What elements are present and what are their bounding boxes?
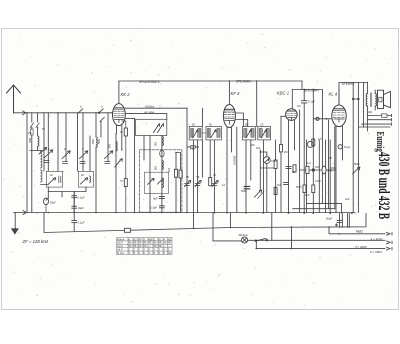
mains switch (19): [229, 80, 230, 81]
mid verticals (6): [213, 140, 215, 213]
waveband switch contacts (2): [79, 109, 83, 113]
vertical wires left section (17): [115, 134, 117, 213]
title vertical: [375, 132, 394, 220]
mid components (3): [195, 184, 200, 186]
KL4 top bus: [339, 83, 367, 105]
right verticals (1): [357, 83, 359, 213]
svg-text:0,1: 0,1: [213, 174, 217, 177]
KF3 tube (3): [224, 114, 234, 116]
svg-text:ZF = 128 kHz: ZF = 128 kHz: [22, 239, 50, 244]
svg-text:SKALA: SKALA: [239, 233, 248, 237]
svg-text:b = 150V: b = 150V: [370, 250, 382, 254]
voltage table: [117, 238, 173, 255]
cap below bus: [72, 213, 77, 232]
svg-text:85: 85: [133, 241, 136, 245]
mains lines (4): [194, 213, 231, 241]
components right-mid (14): [312, 168, 315, 171]
components right-mid (10): [312, 185, 315, 193]
vertical wires left section (4): [37, 128, 39, 136]
KF3 tube (9): [227, 127, 232, 212]
verticals center-right (6): [274, 160, 277, 169]
trimmer box left A: [47, 171, 63, 187]
svg-text:90: 90: [163, 241, 166, 245]
waveband switch contacts: [30, 123, 33, 128]
power box: [340, 214, 350, 228]
resistor on 31.8: [31, 129, 34, 135]
oscillator dashed box: [139, 150, 182, 212]
KF3 tube (7): [225, 118, 234, 120]
svg-text:a = 110V: a = 110V: [371, 237, 383, 241]
speaker connections: [374, 90, 376, 110]
mid components: [185, 181, 191, 187]
IF can 1b (1): [207, 129, 210, 138]
verticals center-right (1): [250, 140, 252, 180]
svg-text:Ua V: Ua V: [117, 241, 123, 245]
vertical wires left section (9): [65, 113, 67, 162]
svg-text:65: 65: [133, 244, 136, 248]
right-mid verticals (9): [334, 127, 336, 209]
IF link: [202, 132, 206, 134]
ground: [14, 213, 16, 229]
IF can 2a: [242, 127, 255, 140]
second bus plug: [125, 228, 131, 232]
KL4 grid connector (1): [313, 118, 331, 120]
svg-text:500: 500: [97, 139, 101, 144]
resistor under KK2 (1): [122, 121, 126, 213]
cap 0.1: [72, 192, 77, 203]
mains switch (18): [186, 108, 187, 109]
svg-text:100: 100: [168, 167, 171, 172]
tuning cap C2: [62, 151, 70, 159]
svg-text:KK 2: KK 2: [121, 92, 131, 97]
osc resistor (2): [176, 153, 181, 213]
svg-text:600: 600: [109, 143, 112, 148]
mains switch (4): [95, 212, 97, 214]
trimmer box left A (1): [49, 178, 56, 184]
components right-mid (1): [286, 167, 291, 169]
KK2 tube (3): [114, 113, 124, 115]
components right-mid (11): [307, 141, 313, 147]
vertical wires left section (15): [100, 122, 102, 138]
KF3 tube (8): [228, 81, 230, 105]
svg-text:50μF: 50μF: [326, 217, 333, 221]
trimmer box left B (2): [90, 176, 91, 183]
tuning cap C2 (1): [63, 162, 68, 164]
vertical wires left section (6): [43, 113, 45, 171]
coil L1: [41, 151, 43, 169]
resistor under KK2: [124, 128, 127, 136]
KF3 tube: [223, 105, 235, 128]
svg-text:88: 88: [158, 241, 161, 245]
KK2 tube (9): [111, 112, 112, 114]
mains switch (6): [161, 212, 163, 214]
svg-text:50μF: 50μF: [50, 202, 56, 205]
svg-text:0,5: 0,5: [318, 138, 322, 141]
osc coil line: [161, 136, 163, 213]
KL4 tube (1): [334, 108, 345, 110]
svg-text:K: K: [128, 237, 130, 241]
mains switch (16): [260, 151, 262, 153]
svg-text:UKB50: UKB50: [233, 155, 237, 165]
trimmer pair box (1): [154, 124, 160, 133]
svg-text:5000: 5000: [327, 170, 333, 173]
top bus 1: [119, 80, 302, 82]
KF3 tube (2): [224, 111, 234, 113]
speaker connections (1): [362, 110, 392, 131]
svg-text:C: C: [153, 237, 155, 241]
KL4 tube (7): [338, 89, 340, 105]
output transformer secondary (1): [366, 106, 368, 110]
KK2 tube: [113, 104, 126, 126]
link line (1): [48, 192, 74, 213]
speaker connections (3): [358, 126, 390, 128]
svg-text:5000: 5000: [296, 186, 302, 189]
svg-text:0.1μF: 0.1μF: [150, 206, 157, 210]
mid verticals: [186, 127, 188, 213]
IF can 1b (5): [211, 130, 216, 138]
mains switch (17): [57, 112, 58, 113]
vertical wires left section: [26, 113, 28, 213]
IF can 1a: [189, 127, 202, 140]
vertical wires left section (20): [134, 118, 136, 212]
coil L2: [41, 170, 49, 185]
mains switch (15): [255, 248, 257, 250]
osc coil windings: [162, 137, 164, 146]
mains switch (13): [291, 226, 293, 228]
tuning cap C4: [105, 151, 113, 159]
svg-text:T40: T40: [190, 148, 195, 151]
svg-text:600: 600: [91, 139, 95, 144]
vertical wires left section (5): [37, 147, 39, 151]
vertical wires left section (13): [95, 113, 97, 137]
components right-mid (5): [258, 192, 265, 199]
vertical wires left section (2): [31, 128, 33, 213]
svg-text:2M: 2M: [28, 132, 31, 135]
svg-text:10μF: 10μF: [78, 206, 85, 210]
right-mid verticals (6): [325, 140, 327, 213]
components right-mid (2): [293, 165, 296, 172]
KBC1 tube (3): [287, 114, 296, 116]
padder trimmer arrow: [115, 159, 123, 168]
mains lines (3): [255, 241, 257, 249]
field coil: [382, 114, 388, 117]
KF3 tube (1): [225, 108, 235, 110]
speaker: [378, 90, 384, 108]
right-mid verticals (4): [318, 140, 320, 213]
KK2 tube (7): [114, 117, 123, 119]
right verticals (4): [353, 98, 358, 100]
wire KK2 aux: [125, 117, 134, 119]
wire KK2 screen: [125, 114, 167, 120]
mains switch (9): [263, 212, 265, 214]
svg-text:Uk V: Uk V: [117, 248, 123, 252]
svg-text:0,5M: 0,5M: [315, 180, 321, 183]
svg-text:K2: K2: [133, 237, 137, 241]
svg-text:KL4g: KL4g: [344, 146, 350, 149]
svg-text:95: 95: [168, 241, 171, 245]
KL4 tube (6): [334, 110, 345, 112]
right verticals (2): [363, 83, 365, 128]
waveband switch contacts (3): [100, 118, 104, 122]
electrolytic small: [44, 198, 49, 205]
IF can 2b (5): [261, 130, 266, 138]
KK2 tube (2): [114, 110, 124, 112]
mid components (6): [212, 184, 217, 186]
KBC1 tube (1): [288, 110, 296, 112]
mid verticals (5): [209, 140, 211, 177]
IF can 2a (2): [245, 129, 247, 138]
KBC1 top wire: [291, 90, 293, 109]
KF3 screen wire (1): [236, 127, 238, 212]
KL4 tube (5): [334, 119, 344, 122]
IF can 1a (1): [191, 129, 194, 138]
svg-text:Eumig: Eumig: [375, 132, 386, 153]
grid wire to KBC1: [281, 115, 286, 117]
svg-text:KL: KL: [158, 237, 162, 241]
mains switch (5): [134, 212, 136, 214]
volume pot (1): [265, 158, 269, 162]
right verticals (5): [352, 98, 354, 100]
mid components (5): [212, 181, 218, 187]
speaker (1): [384, 91, 391, 107]
mains switch (10): [303, 212, 305, 214]
IF can 2b (3): [266, 129, 269, 138]
right-mid verticals (1): [299, 110, 301, 213]
dial lamp: [241, 237, 247, 243]
svg-text:0,5M: 0,5M: [271, 160, 277, 163]
KF3 tube (5): [225, 121, 234, 125]
svg-text:4μF: 4μF: [345, 198, 350, 201]
tuning cap C4 (1): [105, 162, 110, 164]
components right-mid (12): [300, 169, 331, 171]
KBC1 coupling cap: [302, 90, 307, 213]
bus plug connector: [23, 211, 26, 215]
junction dot: [326, 118, 328, 120]
KL4 tube (3): [333, 114, 344, 116]
output transformer primary: [366, 94, 367, 107]
KBC1 tube (2): [287, 112, 296, 114]
svg-text:Netz: Netz: [356, 230, 363, 234]
osc coil windings (1): [160, 150, 164, 157]
resistor under KK2 (2): [124, 179, 127, 187]
vertical wires left section (11): [82, 113, 84, 171]
coil 600: [96, 137, 97, 147]
trimmer box left A (2): [59, 177, 61, 183]
wire KK2 anode: [125, 108, 187, 126]
svg-text:4μF: 4μF: [153, 196, 158, 200]
osc coil windings (2): [162, 161, 164, 170]
KL4 tube (4): [333, 116, 344, 118]
components right-mid (17): [331, 168, 336, 170]
svg-text:90: 90: [138, 241, 141, 245]
IF can 2a (1): [244, 129, 247, 138]
osc coil windings (3): [162, 178, 164, 188]
IF can 2b (4): [267, 129, 269, 138]
anode jack circle: [338, 145, 342, 149]
mid verticals (4): [201, 140, 203, 177]
transformer core: [371, 93, 372, 107]
IF can 1a (4): [199, 129, 201, 138]
osc caps bottom: [159, 196, 164, 198]
vertical wires left section (1): [31, 113, 33, 122]
antenna wire: [14, 112, 113, 114]
IF can 2a (5): [246, 130, 251, 138]
osc inner box: [145, 172, 169, 193]
vertical wires left section (19): [117, 125, 122, 150]
svg-text:KL 4: KL 4: [329, 92, 338, 97]
svg-text:60: 60: [143, 244, 146, 248]
mains switch (3): [48, 212, 50, 214]
mid verticals (1): [192, 140, 194, 213]
svg-text:85: 85: [143, 241, 146, 245]
heater lines: [307, 203, 342, 213]
svg-text:Ug V: Ug V: [117, 244, 123, 248]
mains lines (1): [213, 240, 392, 243]
svg-text:300: 300: [28, 138, 32, 143]
vertical wires left section (10): [77, 113, 79, 171]
IF can 2a (3): [251, 129, 254, 138]
mid verticals (2): [197, 140, 199, 213]
KK2 tube (6): [114, 109, 124, 111]
KK2 tube (8): [118, 81, 120, 104]
mains switch (8): [226, 212, 228, 214]
verticals center-right (4): [259, 150, 261, 191]
svg-text:c = 220V: c = 220V: [355, 245, 367, 249]
KBC1 tube (5): [289, 120, 295, 212]
svg-text:1M: 1M: [277, 184, 280, 187]
svg-text:4μF: 4μF: [305, 194, 310, 197]
waveband switch contacts (1): [36, 123, 39, 128]
verticals center-right (2): [262, 140, 264, 213]
svg-text:0.1μF: 0.1μF: [78, 221, 85, 225]
svg-text:1M: 1M: [297, 105, 300, 108]
IF can 1b (3): [217, 129, 220, 138]
dial lamp (1): [242, 238, 246, 242]
svg-text:60: 60: [128, 244, 131, 248]
svg-text:220: 220: [368, 111, 373, 114]
svg-text:0.1μF: 0.1μF: [78, 196, 85, 200]
svg-text:600: 600: [155, 165, 158, 170]
antenna: [7, 85, 21, 113]
svg-text:um gna: um gna: [144, 110, 154, 114]
svg-text:60: 60: [138, 244, 141, 248]
mid components (1): [185, 184, 190, 186]
svg-text:Röhre: Röhre: [117, 237, 125, 241]
svg-text:2M: 2M: [284, 151, 287, 154]
osc caps bottom (1): [159, 206, 164, 208]
tuning cap C3 (1): [80, 162, 85, 164]
coupling arrow: [30, 148, 47, 155]
cap 10uF: [72, 202, 77, 213]
KL4 tube (2): [333, 111, 344, 113]
IF can 1a (5): [193, 130, 198, 138]
components right-mid (13): [306, 166, 309, 173]
right verticals: [352, 83, 354, 213]
IF can 1b: [206, 127, 221, 140]
mains switch (1): [255, 240, 257, 242]
svg-text:KZ: KZ: [168, 237, 172, 241]
trimmer pair box: [136, 119, 167, 135]
mains lines (2): [256, 247, 392, 250]
svg-text:SPULENSATZ: SPULENSATZ: [139, 80, 160, 84]
right-mid verticals (5): [321, 90, 323, 204]
top bus drop at 256.7: [256, 81, 258, 127]
components right-mid (16): [353, 167, 360, 174]
mains switch (12): [193, 228, 195, 230]
right verticals (3): [366, 83, 368, 94]
IF can 1b (2): [208, 129, 210, 138]
trimmer pair box (3): [144, 136, 150, 213]
svg-text:88: 88: [158, 244, 161, 248]
KBC1 tube: [286, 109, 298, 121]
right-mid verticals (3): [312, 90, 314, 213]
components right-mid (4): [255, 190, 262, 197]
svg-text:90: 90: [128, 241, 131, 245]
vertical wires left section (14): [95, 147, 97, 213]
components right-mid: [280, 145, 283, 152]
IF can 2a (4): [252, 129, 254, 138]
components right-mid (7): [284, 183, 289, 185]
svg-text:KBC 1: KBC 1: [277, 91, 289, 96]
mains lines: [329, 227, 392, 235]
svg-text:5000: 5000: [354, 163, 360, 166]
output transformer secondary: [375, 94, 376, 107]
tuning cap C1: [45, 150, 53, 158]
KK2 tube (5): [115, 120, 124, 123]
svg-text:0,1: 0,1: [222, 184, 226, 187]
svg-text:KF: KF: [138, 237, 142, 241]
electrolytic small (1): [46, 199, 48, 213]
mid verticals (3): [201, 108, 203, 126]
verticals center-right (7): [260, 167, 274, 169]
right-mid verticals (2): [306, 140, 308, 213]
verticals center-right (3): [266, 164, 268, 213]
antenna plug connector: [23, 111, 26, 115]
KL4 tube: [332, 105, 346, 127]
mains switch (7): [186, 212, 188, 214]
second bus: [44, 213, 366, 233]
svg-text:0.1μF: 0.1μF: [308, 100, 315, 104]
IF can 2b: [258, 127, 271, 140]
svg-text:45: 45: [148, 241, 151, 245]
vertical wires left section (12): [89, 136, 91, 171]
osc pad cap: [188, 146, 199, 148]
svg-text:300: 300: [155, 141, 158, 146]
svg-text:430 B und 432 B: 430 B und 432 B: [375, 152, 393, 219]
KBC1 tube (4): [288, 117, 295, 120]
svg-text:SPEJSAH: SPEJSAH: [304, 88, 319, 92]
speaker (2): [379, 97, 382, 102]
KF3 tube (4): [224, 116, 234, 118]
electrolytic +: [335, 220, 342, 226]
svg-text:0,3: 0,3: [307, 162, 311, 165]
top bus 2: [292, 81, 322, 90]
link line: [48, 187, 86, 197]
trimmer pair box (2): [158, 124, 164, 133]
svg-text:KK2bd: KK2bd: [145, 104, 154, 108]
components right-mid (15): [322, 166, 326, 174]
tuning cap C1 (1): [44, 161, 49, 163]
components right-mid (6): [274, 187, 277, 194]
tuning cap C3: [80, 151, 88, 159]
vertical wires left section (18): [116, 142, 117, 152]
svg-text:KF 3: KF 3: [231, 91, 240, 96]
coil ant 300: [38, 136, 39, 146]
heater lines (1): [293, 208, 335, 210]
mains switch: [257, 238, 267, 240]
KF3 tube (6): [225, 110, 235, 112]
ground symbol: [12, 229, 18, 234]
